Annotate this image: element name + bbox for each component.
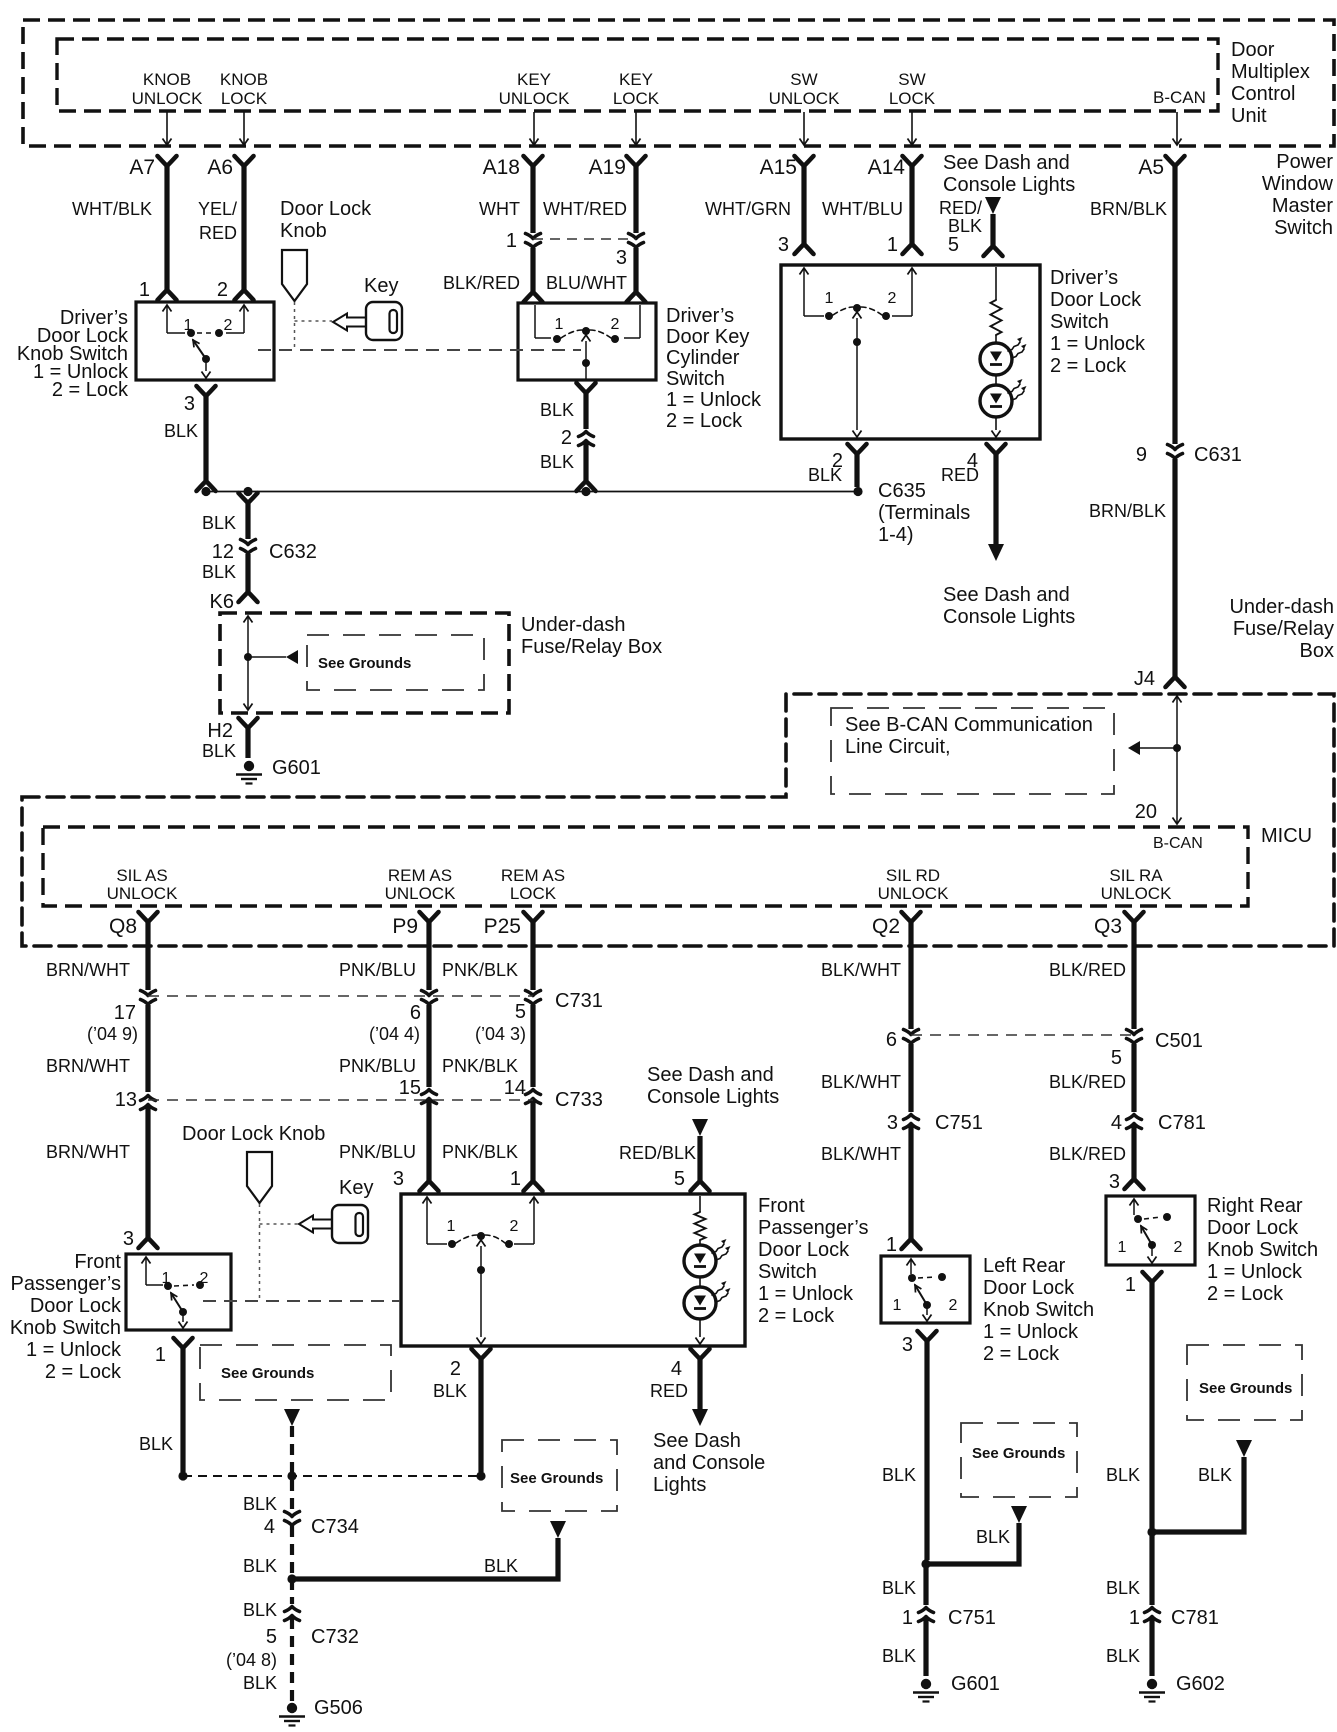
svg-text:BLK: BLK [1106, 1578, 1140, 1598]
svg-text:Switch: Switch [666, 368, 725, 390]
svg-text:and Console: and Console [653, 1452, 765, 1474]
svg-text:PNK/BLU: PNK/BLU [339, 1056, 416, 1076]
svg-text:Passenger’s: Passenger’s [758, 1217, 868, 1239]
svg-text:MICU: MICU [1261, 825, 1312, 847]
svg-text:Console Lights: Console Lights [943, 606, 1075, 628]
svg-text:2: 2 [888, 290, 897, 307]
svg-text:Door Lock: Door Lock [30, 1295, 122, 1317]
svg-text:G601: G601 [951, 1673, 1000, 1695]
svg-text:BLK: BLK [202, 513, 236, 533]
svg-text:KNOB: KNOB [143, 70, 191, 89]
svg-text:UNLOCK: UNLOCK [769, 89, 841, 108]
svg-text:Console Lights: Console Lights [647, 1086, 779, 1108]
svg-text:SIL RA: SIL RA [1109, 866, 1163, 885]
svg-text:2 = Lock: 2 = Lock [45, 1361, 122, 1383]
svg-text:BRN/WHT: BRN/WHT [46, 960, 130, 980]
svg-text:RED: RED [199, 223, 237, 243]
svg-text:BRN/BLK: BRN/BLK [1090, 199, 1167, 219]
svg-text:Door: Door [1231, 39, 1275, 61]
svg-text:G506: G506 [314, 1697, 363, 1719]
svg-text:BLK: BLK [243, 1673, 277, 1693]
svg-text:See Grounds: See Grounds [221, 1365, 314, 1382]
svg-text:Fuse/Relay Box: Fuse/Relay Box [521, 636, 662, 658]
svg-text:BLK: BLK [882, 1465, 916, 1485]
svg-text:Door Key: Door Key [666, 326, 749, 348]
svg-text:BLK: BLK [976, 1527, 1010, 1547]
svg-text:C781: C781 [1158, 1112, 1206, 1134]
svg-text:C635: C635 [878, 480, 926, 502]
svg-text:(’04 4): (’04 4) [369, 1024, 420, 1044]
svg-text:1: 1 [1118, 1239, 1127, 1256]
svg-text:Fuse/Relay: Fuse/Relay [1233, 618, 1334, 640]
svg-text:6: 6 [410, 1002, 421, 1024]
svg-text:Front: Front [74, 1251, 121, 1273]
svg-text:Unit: Unit [1231, 105, 1267, 127]
svg-text:UNLOCK: UNLOCK [1101, 884, 1173, 903]
svg-text:A7: A7 [129, 156, 155, 179]
svg-text:1-4): 1-4) [878, 524, 914, 546]
svg-text:Master: Master [1272, 195, 1333, 217]
svg-text:1: 1 [555, 316, 564, 333]
svg-text:PNK/BLU: PNK/BLU [339, 960, 416, 980]
svg-text:BLK: BLK [484, 1556, 518, 1576]
svg-text:A5: A5 [1138, 156, 1164, 179]
svg-text:C501: C501 [1155, 1030, 1203, 1052]
svg-text:BLK/RED: BLK/RED [443, 273, 520, 293]
svg-text:20: 20 [1135, 801, 1157, 823]
svg-text:C751: C751 [948, 1607, 996, 1629]
svg-text:Door Lock: Door Lock [983, 1277, 1075, 1299]
svg-text:P9: P9 [392, 915, 418, 938]
svg-text:12: 12 [212, 541, 234, 563]
svg-text:Under-dash: Under-dash [521, 614, 626, 636]
svg-text:BLK: BLK [243, 1494, 277, 1514]
svg-text:KNOB: KNOB [220, 70, 268, 89]
svg-text:PNK/BLK: PNK/BLK [442, 960, 518, 980]
svg-text:Front: Front [758, 1195, 805, 1217]
svg-text:WHT/RED: WHT/RED [543, 199, 627, 219]
svg-text:3: 3 [902, 1334, 913, 1356]
svg-text:See Grounds: See Grounds [318, 655, 411, 672]
svg-text:3: 3 [887, 1112, 898, 1134]
svg-text:BLK: BLK [948, 216, 982, 236]
svg-text:BLK/RED: BLK/RED [1049, 1072, 1126, 1092]
svg-text:Box: Box [1300, 640, 1334, 662]
svg-text:WHT/GRN: WHT/GRN [705, 199, 791, 219]
svg-text:Lights: Lights [653, 1474, 706, 1496]
svg-text:B-CAN: B-CAN [1153, 835, 1203, 852]
svg-text:SW: SW [898, 70, 925, 89]
svg-text:1: 1 [1125, 1274, 1136, 1296]
svg-text:C751: C751 [935, 1112, 983, 1134]
svg-text:1 = Unlock: 1 = Unlock [666, 389, 762, 411]
svg-text:Door Lock Knob: Door Lock Knob [182, 1123, 325, 1145]
svg-text:2: 2 [224, 317, 233, 334]
svg-text:KEY: KEY [517, 70, 551, 89]
svg-text:See Dash and: See Dash and [943, 584, 1070, 606]
svg-text:BLK/WHT: BLK/WHT [821, 960, 901, 980]
svg-text:13: 13 [115, 1089, 137, 1111]
svg-text:1: 1 [139, 279, 150, 301]
svg-text:1: 1 [887, 234, 898, 256]
svg-text:See Dash and: See Dash and [647, 1064, 774, 1086]
svg-text:4: 4 [264, 1516, 275, 1538]
svg-text:WHT: WHT [479, 199, 520, 219]
svg-text:LOCK: LOCK [510, 884, 557, 903]
svg-text:SIL AS: SIL AS [116, 866, 167, 885]
svg-text:Multiplex: Multiplex [1231, 61, 1310, 83]
svg-text:UNLOCK: UNLOCK [132, 89, 204, 108]
svg-text:1: 1 [510, 1168, 521, 1190]
svg-text:Window: Window [1262, 173, 1334, 195]
svg-text:1: 1 [886, 1234, 897, 1256]
svg-text:BLK: BLK [540, 452, 574, 472]
svg-text:A19: A19 [589, 156, 626, 179]
svg-text:4: 4 [1111, 1112, 1122, 1134]
svg-text:C734: C734 [311, 1516, 359, 1538]
svg-text:Knob: Knob [280, 220, 327, 242]
svg-text:Right Rear: Right Rear [1207, 1195, 1303, 1217]
svg-text:4: 4 [671, 1358, 682, 1380]
svg-text:3: 3 [184, 393, 195, 415]
svg-text:B-CAN: B-CAN [1153, 88, 1206, 107]
svg-text:Door Lock: Door Lock [280, 198, 372, 220]
svg-text:Key: Key [364, 275, 398, 297]
svg-text:J4: J4 [1134, 668, 1155, 690]
svg-text:2 = Lock: 2 = Lock [52, 379, 129, 401]
svg-text:6: 6 [886, 1029, 897, 1051]
svg-text:Q3: Q3 [1094, 915, 1122, 938]
svg-text:Q2: Q2 [872, 915, 900, 938]
svg-text:Power: Power [1276, 151, 1333, 173]
svg-text:BLK: BLK [202, 562, 236, 582]
svg-text:14: 14 [504, 1077, 526, 1099]
svg-text:C731: C731 [555, 990, 603, 1012]
svg-text:2: 2 [510, 1218, 519, 1235]
svg-text:UNLOCK: UNLOCK [878, 884, 950, 903]
svg-text:Switch: Switch [758, 1261, 817, 1283]
svg-text:UNLOCK: UNLOCK [499, 89, 571, 108]
svg-text:BLK: BLK [882, 1646, 916, 1666]
svg-text:Door Lock: Door Lock [1050, 289, 1142, 311]
svg-text:1: 1 [1129, 1607, 1140, 1629]
svg-text:RED: RED [941, 465, 979, 485]
svg-text:BLK: BLK [882, 1578, 916, 1598]
svg-text:Cylinder: Cylinder [666, 347, 740, 369]
svg-text:(Terminals: (Terminals [878, 502, 970, 524]
svg-text:BLK: BLK [540, 400, 574, 420]
svg-text:SW: SW [790, 70, 817, 89]
svg-text:BLK/RED: BLK/RED [1049, 1144, 1126, 1164]
svg-text:WHT/BLK: WHT/BLK [72, 199, 152, 219]
svg-text:1: 1 [447, 1218, 456, 1235]
svg-text:RED: RED [650, 1381, 688, 1401]
svg-text:PNK/BLU: PNK/BLU [339, 1142, 416, 1162]
svg-text:RED/: RED/ [939, 198, 982, 218]
svg-text:Under-dash: Under-dash [1229, 596, 1334, 618]
svg-text:SIL RD: SIL RD [886, 866, 940, 885]
svg-text:See Grounds: See Grounds [510, 1470, 603, 1487]
svg-text:PNK/BLK: PNK/BLK [442, 1056, 518, 1076]
svg-text:Door Lock: Door Lock [1207, 1217, 1299, 1239]
svg-text:5: 5 [1111, 1047, 1122, 1069]
svg-text:A18: A18 [483, 156, 520, 179]
svg-text:BLK/WHT: BLK/WHT [821, 1144, 901, 1164]
svg-text:See Grounds: See Grounds [972, 1445, 1065, 1462]
svg-text:2 = Lock: 2 = Lock [666, 410, 743, 432]
svg-text:WHT/BLU: WHT/BLU [822, 199, 903, 219]
svg-text:UNLOCK: UNLOCK [385, 884, 457, 903]
svg-text:BLK: BLK [433, 1381, 467, 1401]
svg-text:YEL/: YEL/ [198, 199, 237, 219]
svg-text:1: 1 [893, 1297, 902, 1314]
svg-text:Console Lights: Console Lights [943, 174, 1075, 196]
svg-text:LOCK: LOCK [889, 89, 936, 108]
svg-text:1 = Unlock: 1 = Unlock [758, 1283, 854, 1305]
svg-text:BRN/WHT: BRN/WHT [46, 1056, 130, 1076]
svg-text:2: 2 [561, 427, 572, 449]
svg-text:3: 3 [393, 1168, 404, 1190]
svg-text:BLK: BLK [243, 1556, 277, 1576]
svg-text:(’04 9): (’04 9) [87, 1024, 138, 1044]
svg-text:K6: K6 [210, 591, 234, 613]
svg-text:A6: A6 [207, 156, 233, 179]
svg-text:(’04 3): (’04 3) [475, 1024, 526, 1044]
svg-text:2: 2 [217, 279, 228, 301]
svg-text:C781: C781 [1171, 1607, 1219, 1629]
svg-text:1 = Unlock: 1 = Unlock [26, 1339, 122, 1361]
svg-text:REM AS: REM AS [388, 866, 452, 885]
svg-text:PNK/BLK: PNK/BLK [442, 1142, 518, 1162]
svg-text:BLK: BLK [139, 1434, 173, 1454]
svg-text:3: 3 [123, 1228, 134, 1250]
svg-text:C733: C733 [555, 1089, 603, 1111]
svg-text:1: 1 [902, 1607, 913, 1629]
svg-text:Knob Switch: Knob Switch [1207, 1239, 1318, 1261]
svg-text:C632: C632 [269, 541, 317, 563]
svg-text:BRN/WHT: BRN/WHT [46, 1142, 130, 1162]
svg-text:BLK/WHT: BLK/WHT [821, 1072, 901, 1092]
svg-text:BLK: BLK [808, 465, 842, 485]
svg-text:Driver’s: Driver’s [666, 305, 734, 327]
svg-text:BLK: BLK [1106, 1646, 1140, 1666]
svg-text:Switch: Switch [1274, 217, 1333, 239]
svg-text:1 = Unlock: 1 = Unlock [1050, 333, 1146, 355]
svg-text:C631: C631 [1194, 444, 1242, 466]
svg-text:1 = Unlock: 1 = Unlock [1207, 1261, 1303, 1283]
svg-text:2 = Lock: 2 = Lock [1050, 355, 1127, 377]
svg-text:A15: A15 [760, 156, 797, 179]
svg-text:2 = Lock: 2 = Lock [758, 1305, 835, 1327]
svg-text:H2: H2 [207, 720, 233, 742]
svg-text:LOCK: LOCK [221, 89, 268, 108]
svg-text:C732: C732 [311, 1626, 359, 1648]
svg-text:REM AS: REM AS [501, 866, 565, 885]
svg-text:2: 2 [949, 1297, 958, 1314]
svg-text:BLK: BLK [202, 741, 236, 761]
svg-text:5: 5 [948, 234, 959, 256]
svg-text:5: 5 [674, 1168, 685, 1190]
svg-text:G601: G601 [272, 757, 321, 779]
svg-text:UNLOCK: UNLOCK [107, 884, 179, 903]
svg-text:5: 5 [266, 1626, 277, 1648]
svg-text:See Grounds: See Grounds [1199, 1380, 1292, 1397]
svg-text:17: 17 [114, 1002, 136, 1024]
svg-text:2: 2 [611, 316, 620, 333]
svg-text:P25: P25 [484, 915, 521, 938]
svg-text:Knob Switch: Knob Switch [10, 1317, 121, 1339]
svg-text:Q8: Q8 [109, 915, 137, 938]
svg-text:KEY: KEY [619, 70, 653, 89]
svg-text:(’04 8): (’04 8) [226, 1650, 277, 1670]
svg-text:G602: G602 [1176, 1673, 1225, 1695]
svg-text:1 = Unlock: 1 = Unlock [983, 1321, 1079, 1343]
svg-text:1: 1 [825, 290, 834, 307]
svg-text:3: 3 [616, 247, 627, 269]
svg-text:3: 3 [778, 234, 789, 256]
svg-text:Key: Key [339, 1177, 373, 1199]
svg-text:Control: Control [1231, 83, 1295, 105]
svg-text:BLK: BLK [243, 1600, 277, 1620]
svg-text:See Dash and: See Dash and [943, 152, 1070, 174]
svg-text:Knob Switch: Knob Switch [983, 1299, 1094, 1321]
svg-text:2: 2 [1174, 1239, 1183, 1256]
svg-text:2 = Lock: 2 = Lock [983, 1343, 1060, 1365]
svg-text:See B-CAN Communication: See B-CAN Communication [845, 714, 1093, 736]
svg-text:BLK: BLK [1106, 1465, 1140, 1485]
svg-text:Switch: Switch [1050, 311, 1109, 333]
svg-text:Passenger’s: Passenger’s [11, 1273, 121, 1295]
svg-text:Left Rear: Left Rear [983, 1255, 1066, 1277]
svg-text:A14: A14 [868, 156, 906, 179]
svg-text:15: 15 [399, 1077, 421, 1099]
svg-text:2: 2 [450, 1358, 461, 1380]
svg-text:9: 9 [1136, 444, 1147, 466]
svg-text:Driver’s: Driver’s [1050, 267, 1118, 289]
svg-text:See Dash: See Dash [653, 1430, 741, 1452]
svg-text:BRN/BLK: BRN/BLK [1089, 501, 1166, 521]
svg-text:3: 3 [1109, 1171, 1120, 1193]
svg-text:Line Circuit,: Line Circuit, [845, 736, 951, 758]
svg-text:2 = Lock: 2 = Lock [1207, 1283, 1284, 1305]
svg-text:BLK: BLK [1198, 1465, 1232, 1485]
svg-text:BLK: BLK [164, 421, 198, 441]
svg-text:BLU/WHT: BLU/WHT [546, 273, 627, 293]
svg-text:1: 1 [506, 230, 517, 252]
svg-text:LOCK: LOCK [613, 89, 660, 108]
svg-text:5: 5 [515, 1001, 526, 1023]
svg-text:RED/BLK: RED/BLK [619, 1143, 696, 1163]
svg-text:BLK/RED: BLK/RED [1049, 960, 1126, 980]
svg-text:Door Lock: Door Lock [758, 1239, 850, 1261]
svg-text:1: 1 [155, 1344, 166, 1366]
